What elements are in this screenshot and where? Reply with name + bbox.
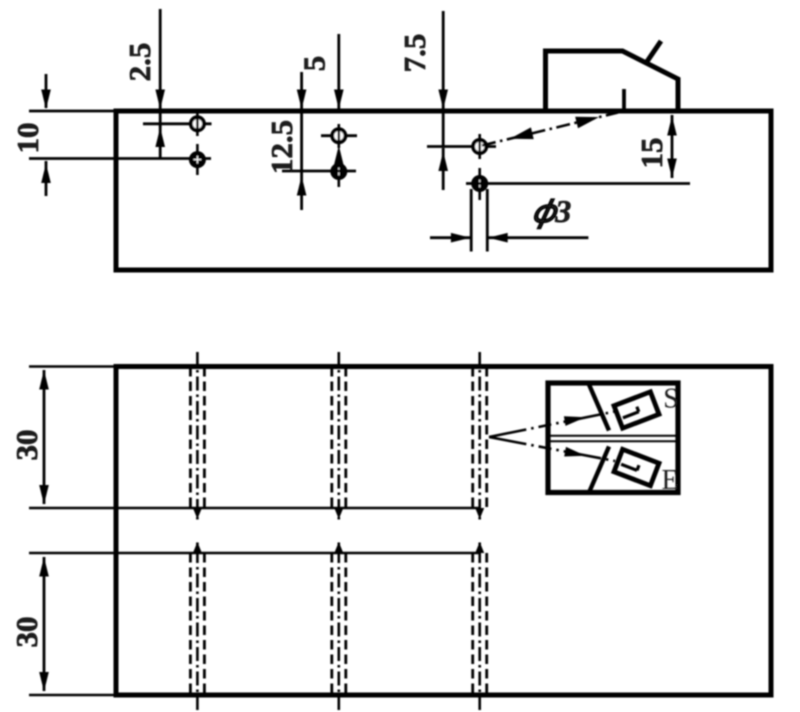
- svg-text:𝜙3: 𝜙3: [533, 193, 571, 229]
- dimension 12.5: [300, 72, 303, 210]
- hole SDH2a (open): [332, 124, 345, 148]
- dimension 10 arrows: [45, 74, 48, 196]
- depth line 2.5: [143, 122, 212, 125]
- hole SDH1b (filled): [189, 144, 206, 175]
- probe cable stub: [646, 41, 661, 63]
- phi3 dimension arrows: [430, 236, 588, 239]
- svg-text:5: 5: [297, 56, 332, 72]
- dimension 15: [671, 115, 674, 178]
- svg-text:15: 15: [634, 138, 669, 169]
- drill point tips: [193, 508, 484, 553]
- probe S connector rect: [614, 392, 659, 428]
- beam path (side view) dash-dot: [482, 113, 618, 146]
- probe (side view): [546, 51, 679, 111]
- svg-text:12.5: 12.5: [264, 120, 299, 174]
- block outline (side view): [116, 111, 771, 270]
- hole end line (upper): [29, 507, 480, 510]
- hole SDH3b (filled): [471, 168, 488, 200]
- svg-text:10: 10: [10, 123, 45, 154]
- extension lines left: [29, 367, 116, 696]
- svg-text:7.5: 7.5: [397, 34, 432, 73]
- beam to E (top view): [489, 437, 615, 461]
- top edge extension line (left): [29, 110, 116, 113]
- dimension 7.5: [442, 11, 445, 190]
- dimension 30 upper: [43, 370, 46, 504]
- probe split lines: [548, 436, 678, 442]
- hole SDH3a (open): [473, 134, 486, 159]
- block outline (top view): [116, 367, 771, 696]
- dimension 5: [337, 34, 340, 111]
- phi3 extension lines: [471, 189, 487, 252]
- depth line 12.5: [282, 170, 356, 173]
- probe index tick: [622, 89, 626, 111]
- beam arrowhead toward probe: [575, 117, 599, 129]
- svg-text:2.5: 2.5: [122, 43, 157, 82]
- probe S wedge line: [589, 385, 609, 431]
- probe pair box (top view): [548, 383, 678, 493]
- svg-text:E: E: [661, 465, 678, 496]
- probe E wedge line: [589, 447, 609, 493]
- svg-text:S: S: [663, 384, 679, 415]
- probe E connector rect: [614, 449, 659, 485]
- beam to S (top view): [489, 412, 615, 438]
- hole SDH1a (open): [191, 112, 204, 136]
- hole end line (lower): [29, 552, 480, 555]
- extension line 15: [466, 182, 690, 185]
- hole columns hidden lines: [190, 367, 486, 695]
- depth line 10: [29, 157, 211, 160]
- dimension 30 lower: [43, 557, 46, 691]
- depth line 7.5: [427, 145, 496, 148]
- dimension 2.5: [159, 9, 162, 159]
- svg-text:30: 30: [9, 617, 44, 648]
- svg-text:30: 30: [9, 430, 44, 461]
- beam arrowhead toward hole: [510, 127, 534, 139]
- depth line 5: [321, 134, 357, 137]
- hole center lines (dash-dot): [197, 352, 479, 710]
- hole SDH2b (filled): [330, 156, 347, 187]
